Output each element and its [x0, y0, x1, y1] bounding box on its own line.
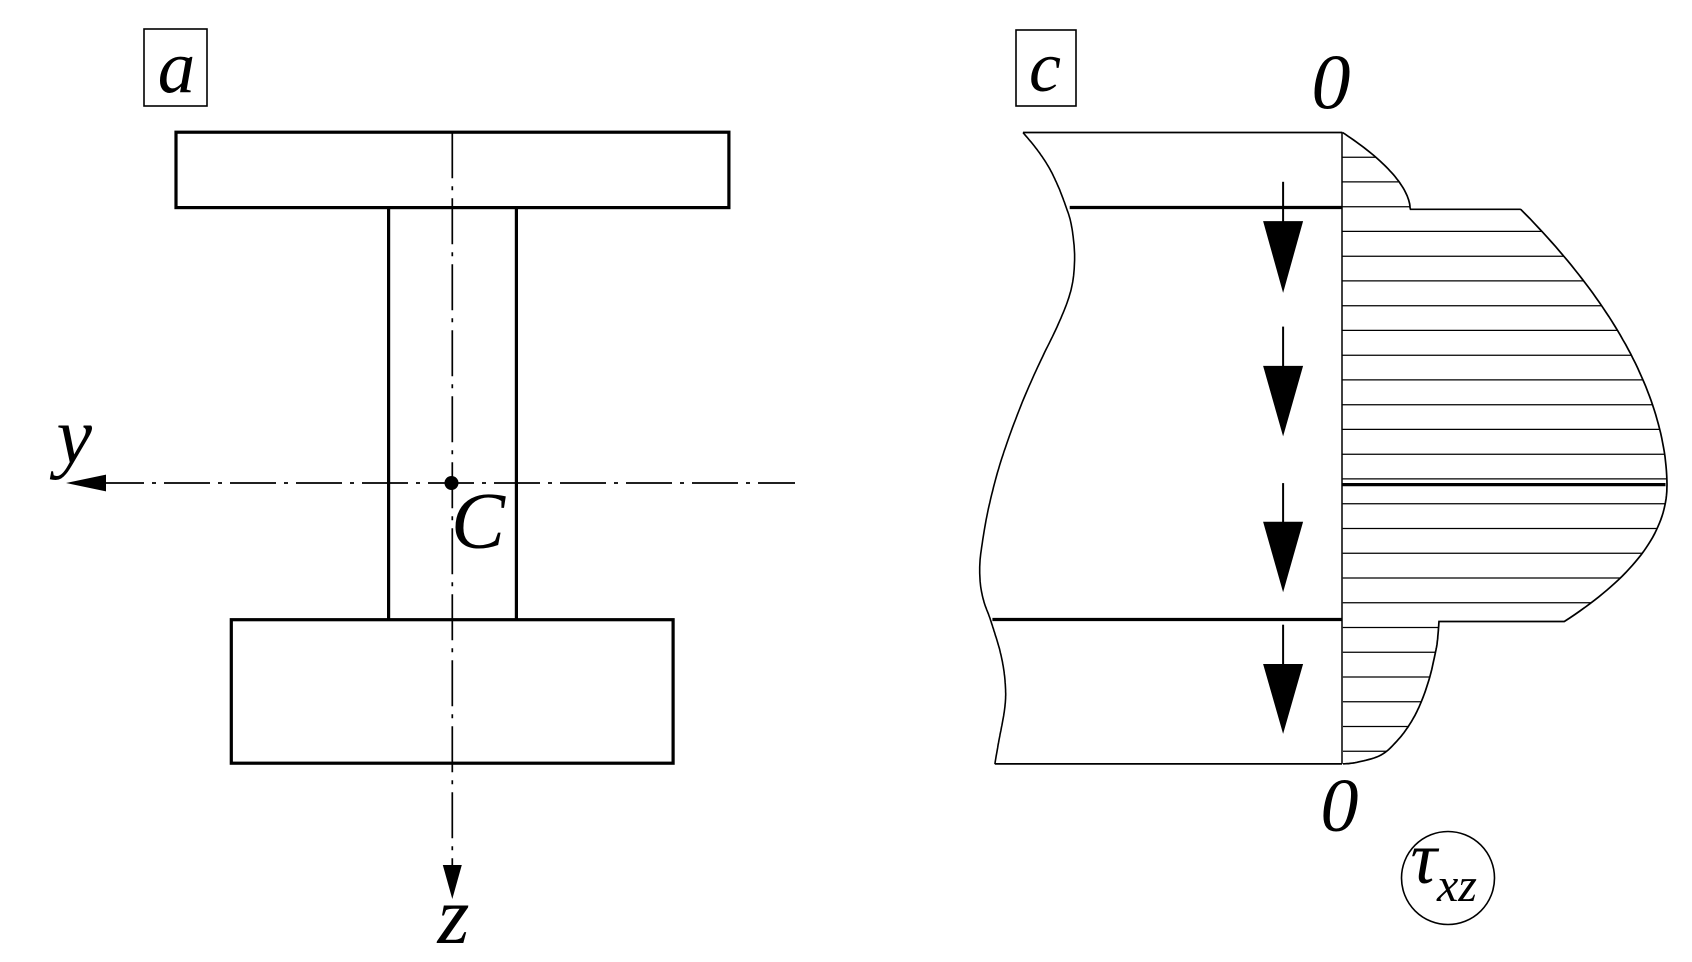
bottom flange	[231, 620, 673, 764]
top flange	[176, 132, 729, 207]
section top edge	[1023, 132, 1342, 134]
svg-text:τ: τ	[1411, 818, 1440, 900]
svg-text:0: 0	[1312, 38, 1351, 125]
svg-text:a: a	[158, 26, 196, 109]
svg-text:y: y	[50, 393, 93, 481]
tau_xz circle	[1402, 832, 1495, 925]
svg-text:xz: xz	[1436, 859, 1477, 912]
centroid C dot	[445, 476, 459, 490]
break line (wavy)	[980, 133, 1075, 764]
stress region outline	[1342, 132, 1667, 764]
arrow 1	[1263, 182, 1303, 293]
hatch lines	[1342, 157, 1667, 751]
z-axis arrowhead	[443, 865, 462, 899]
web bottom edge thick	[992, 618, 1342, 621]
arrow 4	[1263, 625, 1303, 734]
svg-text:C: C	[451, 476, 506, 566]
y-axis (dash-dot)	[98, 482, 795, 484]
svg-text:z: z	[437, 870, 470, 961]
label box c	[1016, 30, 1076, 106]
section axis 0-0	[1341, 133, 1343, 764]
z-axis (dash-dot)	[451, 132, 453, 867]
section bottom edge	[995, 763, 1342, 765]
y-axis arrowhead	[66, 475, 106, 492]
svg-text:c: c	[1029, 27, 1061, 107]
neutral axis max stress line (thick)	[1342, 483, 1666, 486]
flange bottom edge thick	[1070, 206, 1342, 209]
web	[389, 208, 517, 620]
arrow 2	[1263, 327, 1303, 437]
label box a	[144, 29, 207, 106]
svg-text:0: 0	[1321, 764, 1359, 848]
arrow 3	[1263, 483, 1303, 592]
